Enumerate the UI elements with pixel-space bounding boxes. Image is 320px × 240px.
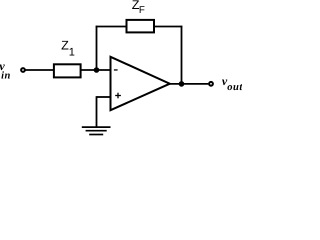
wire input terminal to Z1 bbox=[26, 69, 56, 71]
op-amp non-inverting input plus sign bbox=[115, 93, 121, 99]
wire feedback top right horizontal bbox=[154, 26, 182, 28]
svg-text:in: in bbox=[1, 71, 11, 82]
junction dot at output node bbox=[179, 81, 185, 87]
wire feedback top left horizontal bbox=[96, 26, 127, 28]
wire Z1 to op-amp inverting input bbox=[81, 69, 111, 71]
ground bbox=[82, 127, 111, 134]
svg-text:out: out bbox=[227, 82, 242, 93]
op-amp inverting input minus sign bbox=[114, 69, 118, 70]
wire feedback left vertical bbox=[96, 26, 98, 70]
wire op-amp non-inverting input horizontal bbox=[97, 96, 111, 98]
input terminal (open circle) bbox=[21, 68, 25, 72]
output terminal (open circle) bbox=[209, 82, 213, 86]
op-amp U1 (triangle) bbox=[111, 57, 170, 110]
svg-text:F: F bbox=[139, 5, 145, 16]
junction dot at inverting input node bbox=[94, 67, 100, 73]
impedance Z1 (box) bbox=[54, 64, 81, 77]
impedance ZF (box) bbox=[127, 20, 155, 33]
svg-text:1: 1 bbox=[69, 46, 75, 58]
wire op-amp output to terminal bbox=[168, 83, 208, 85]
wire non-inverting input down to ground bbox=[96, 96, 98, 127]
wire feedback right vertical bbox=[181, 26, 183, 84]
